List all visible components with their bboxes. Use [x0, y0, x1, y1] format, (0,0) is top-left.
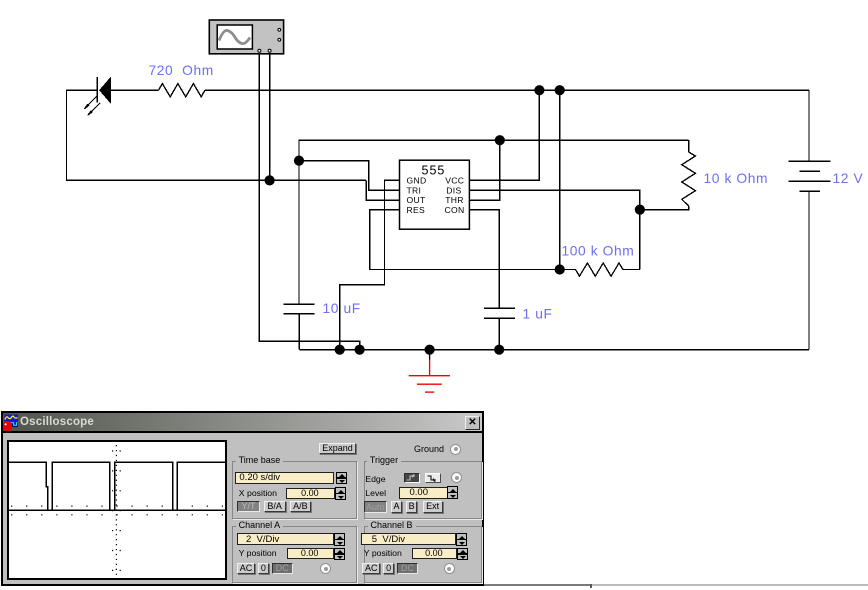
axis tick dots rows — [11, 505, 225, 507]
resistor 720 Ohm — [159, 84, 206, 97]
svg-text:1 uF: 1 uF — [523, 307, 553, 322]
LED D1 — [84, 77, 110, 115]
svg-text:DIS: DIS — [446, 185, 461, 195]
ground symbol (red) — [409, 350, 450, 392]
wire 100k to VCC rail — [559, 90, 561, 269]
channel B trace (flat) — [9, 509, 225, 511]
oscilloscope panel window — [1, 411, 484, 586]
svg-text:RES: RES — [407, 205, 426, 215]
svg-text:VCC: VCC — [445, 175, 464, 185]
wire OUT pin jog — [366, 180, 399, 200]
Channel A group — [232, 526, 357, 583]
wire VCC pin route — [470, 90, 539, 180]
svg-text:10 uF: 10 uF — [323, 301, 361, 316]
capacitor 10 uF — [284, 304, 315, 350]
Expand button — [319, 443, 356, 454]
wire 10k bottom to DIS node — [640, 206, 689, 210]
wire VCC rail top — [110, 89, 809, 91]
wire TRI pin route — [299, 161, 400, 191]
Ground label — [414, 444, 444, 454]
Ground radio — [450, 444, 461, 455]
svg-text:12 V: 12 V — [833, 171, 864, 186]
wire LED left loop — [67, 90, 367, 180]
window icon — [3, 413, 23, 432]
op-amp timer U1 555 — [400, 160, 470, 229]
svg-text:THR: THR — [445, 195, 464, 205]
resistor 10 k Ohm — [682, 152, 696, 206]
oscilloscope instrument icon — [209, 20, 283, 54]
wire 10k top lead — [688, 140, 690, 152]
battery V1 12V — [789, 90, 831, 350]
Channel B group — [364, 526, 482, 583]
svg-text:CON: CON — [445, 205, 465, 215]
svg-text:720 Ohm: 720 Ohm — [149, 63, 214, 78]
time base field — [235, 472, 334, 485]
wire scope channel B to OUT node — [269, 52, 271, 181]
Trigger group — [364, 461, 482, 519]
svg-text:GND: GND — [407, 175, 427, 185]
wire RES to 100k node — [370, 210, 560, 270]
svg-text:100 k Ohm: 100 k Ohm — [562, 244, 635, 259]
capacitor 1 uF — [484, 308, 515, 349]
X position — [239, 488, 277, 498]
resistor 100 k Ohm — [560, 263, 640, 276]
wire THR-TRI node rail — [299, 140, 689, 304]
wire THR pin route — [470, 140, 500, 200]
Y/T B/A A/B buttons — [237, 501, 260, 512]
junction dots — [265, 85, 646, 355]
svg-text:TRI: TRI — [407, 185, 422, 195]
edge buttons — [404, 473, 420, 483]
channel A trace (square wave) — [9, 462, 225, 510]
scope display — [7, 440, 227, 580]
wire ground rail bottom — [299, 349, 809, 351]
Time base group — [232, 461, 357, 519]
window edge line bottom right — [484, 584, 592, 586]
svg-text:OUT: OUT — [407, 195, 426, 205]
wire GND pin route — [340, 180, 400, 350]
wire CON pin to 1uF — [470, 210, 499, 309]
wire DIS pin route — [470, 190, 640, 269]
vertical axis dotted — [115, 445, 117, 576]
wire scope channel A to ground rail — [259, 52, 359, 350]
svg-text:10 k Ohm: 10 k Ohm — [704, 171, 769, 186]
